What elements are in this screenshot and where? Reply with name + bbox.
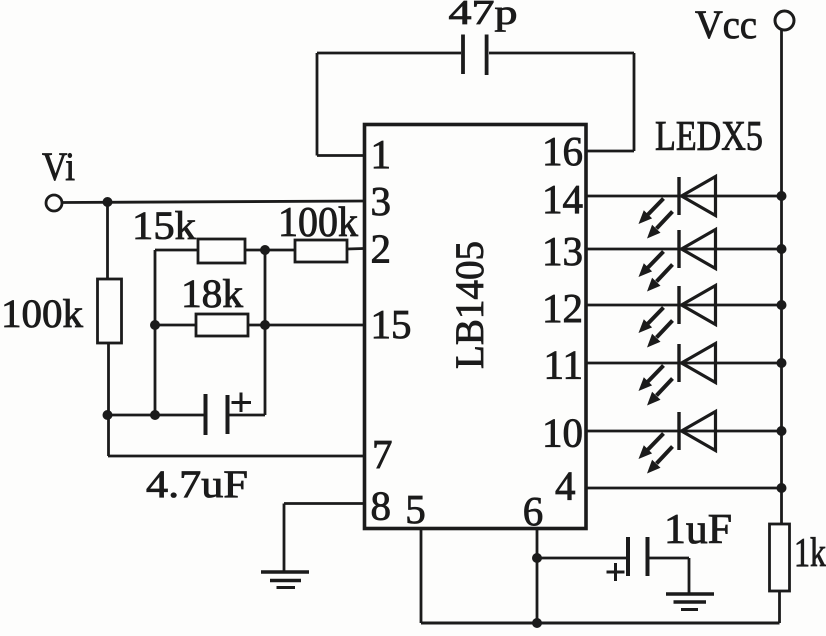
svg-text:4.7uF: 4.7uF	[146, 463, 248, 506]
svg-text:Vcc: Vcc	[695, 2, 757, 47]
svg-text:100k: 100k	[1, 291, 83, 336]
svg-text:14: 14	[542, 176, 583, 222]
svg-text:18k: 18k	[181, 271, 243, 316]
svg-text:5: 5	[405, 486, 426, 532]
svg-text:7: 7	[372, 431, 393, 477]
svg-text:LB1405: LB1405	[447, 241, 492, 369]
svg-text:11: 11	[544, 342, 583, 388]
svg-text:4: 4	[555, 463, 576, 509]
svg-text:47p: 47p	[449, 0, 518, 32]
svg-text:15: 15	[371, 301, 412, 347]
svg-text:10: 10	[542, 410, 583, 456]
svg-text:16: 16	[542, 128, 583, 174]
svg-text:12: 12	[542, 285, 583, 331]
svg-text:Vi: Vi	[42, 144, 75, 189]
svg-text:13: 13	[542, 228, 583, 274]
svg-text:LEDX5: LEDX5	[655, 114, 763, 160]
svg-text:1uF: 1uF	[664, 507, 732, 553]
svg-text:1: 1	[371, 131, 392, 177]
svg-text:2: 2	[371, 226, 392, 272]
svg-text:1k: 1k	[794, 529, 826, 575]
svg-text:100k: 100k	[278, 200, 358, 246]
svg-text:15k: 15k	[132, 203, 196, 248]
svg-text:6: 6	[523, 488, 544, 534]
svg-text:3: 3	[371, 178, 392, 224]
svg-text:8: 8	[371, 483, 392, 529]
